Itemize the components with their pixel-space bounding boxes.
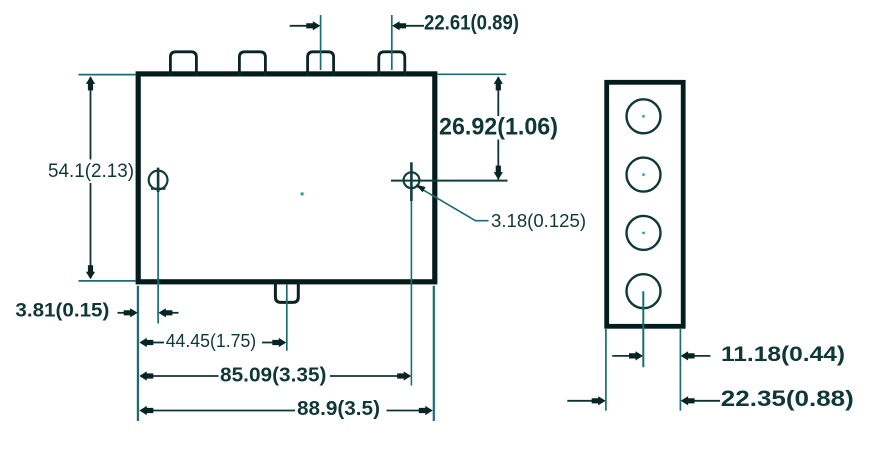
svg-text:44.45(1.75): 44.45(1.75) bbox=[166, 331, 257, 351]
svg-text:3.81(0.15): 3.81(0.15) bbox=[15, 299, 109, 321]
svg-text:22.35(0.88): 22.35(0.88) bbox=[721, 386, 854, 411]
svg-text:54.1(2.13): 54.1(2.13) bbox=[48, 161, 134, 182]
svg-text:11.18(0.44): 11.18(0.44) bbox=[721, 342, 845, 366]
svg-text:22.61(0.89): 22.61(0.89) bbox=[424, 12, 519, 35]
svg-text:26.92(1.06): 26.92(1.06) bbox=[439, 114, 558, 141]
svg-text:85.09(3.35): 85.09(3.35) bbox=[220, 363, 327, 386]
svg-text:3.18(0.125): 3.18(0.125) bbox=[491, 210, 586, 231]
svg-text:88.9(3.5): 88.9(3.5) bbox=[297, 397, 380, 420]
